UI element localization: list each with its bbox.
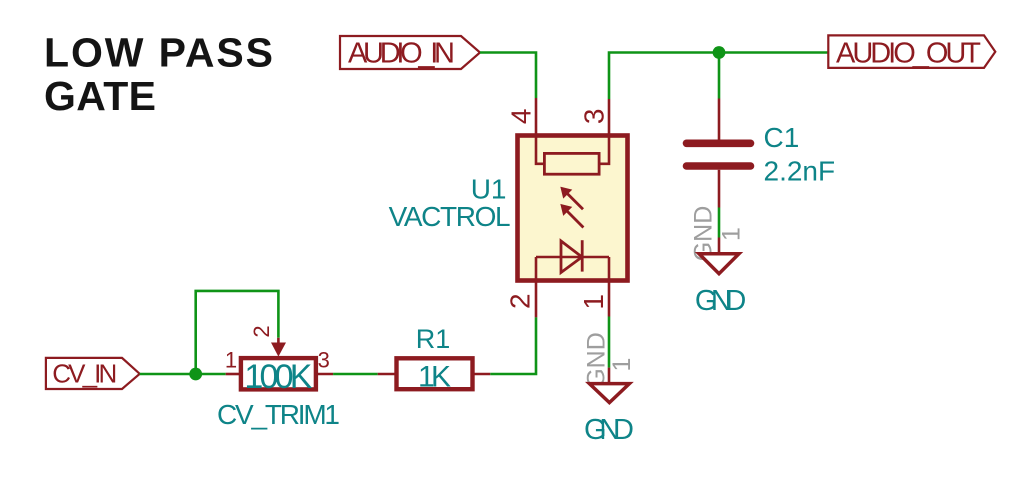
svg-text:R1: R1 xyxy=(416,324,451,354)
global label CV_IN xyxy=(46,358,140,389)
potentiometer left pin xyxy=(226,373,241,376)
U1 light arrow lower xyxy=(561,205,583,228)
svg-text:GND: GND xyxy=(583,332,611,388)
U1 pin 1 xyxy=(608,281,611,317)
U1 LED drops to pins xyxy=(535,257,538,279)
wire C1 to GND xyxy=(718,208,721,238)
resistor R1 right pin xyxy=(473,373,491,376)
title LOW PASS GATE xyxy=(44,30,273,120)
wire CV_IN to pot xyxy=(140,373,226,376)
svg-text:3: 3 xyxy=(578,109,609,125)
svg-text:CV_IN: CV_IN xyxy=(52,359,117,389)
svg-text:GND: GND xyxy=(695,285,747,317)
ground symbol under C1 xyxy=(690,206,747,317)
resistor R1 left pin xyxy=(378,373,397,376)
U1 pin 3 xyxy=(608,99,611,136)
svg-text:100K: 100K xyxy=(244,358,312,396)
U1 LED cathode bar xyxy=(581,240,584,271)
capacitor C1 pin bottom xyxy=(718,170,721,208)
svg-text:AUDIO_OUT: AUDIO_OUT xyxy=(836,38,981,70)
wire pin 3 to top rail xyxy=(609,53,828,100)
svg-text:CV_TRIM1: CV_TRIM1 xyxy=(217,399,340,430)
svg-text:C1: C1 xyxy=(764,122,800,153)
svg-text:GND: GND xyxy=(584,414,634,446)
svg-text:LOW PASS: LOW PASS xyxy=(44,30,273,76)
wire pin1 to GND xyxy=(608,317,611,368)
wire pot to R1 xyxy=(333,373,378,376)
svg-text:1: 1 xyxy=(718,227,746,241)
U1 pin 4 xyxy=(535,98,538,136)
svg-text:VACTROL: VACTROL xyxy=(389,201,511,232)
svg-text:2: 2 xyxy=(504,293,535,309)
svg-text:2.2nF: 2.2nF xyxy=(764,155,836,186)
wire AUDIO_IN to pin 4 xyxy=(480,53,536,99)
junction top xyxy=(713,46,726,59)
capacitor C1 pin top xyxy=(718,99,721,140)
U1 pin 2 xyxy=(535,281,538,318)
capacitor C1 plates xyxy=(687,140,751,148)
global label AUDIO_OUT xyxy=(828,35,995,69)
wire pin 2 to bottom rail xyxy=(490,317,536,374)
svg-text:1K: 1K xyxy=(418,361,451,394)
svg-text:1: 1 xyxy=(608,358,636,372)
potentiometer right pin xyxy=(316,373,333,376)
U1 LED triangle xyxy=(561,241,582,273)
potentiometer CV_TRIM1 wiper pin xyxy=(277,338,280,344)
svg-text:AUDIO_IN: AUDIO_IN xyxy=(348,38,455,70)
op-to body U1 box xyxy=(518,136,628,281)
svg-text:1: 1 xyxy=(578,294,609,310)
wire junction to C1 xyxy=(718,53,721,99)
svg-text:1: 1 xyxy=(225,347,237,372)
svg-text:GATE: GATE xyxy=(44,73,156,119)
ground symbol under pin 1 xyxy=(583,332,637,446)
U1 internal resistor xyxy=(544,153,599,174)
svg-text:4: 4 xyxy=(505,109,536,125)
U1 internal resistor leads xyxy=(536,137,544,164)
wire loop junction to wiper xyxy=(196,291,279,374)
resistor R1 body xyxy=(397,358,473,389)
global label AUDIO_IN xyxy=(340,36,480,70)
junction bottom xyxy=(189,368,202,381)
U1 light arrow upper xyxy=(561,187,583,209)
U1 LED line xyxy=(536,256,609,259)
potentiometer body CV_TRIM1 xyxy=(241,358,316,389)
svg-text:2: 2 xyxy=(249,325,274,337)
svg-text:3: 3 xyxy=(318,348,330,373)
